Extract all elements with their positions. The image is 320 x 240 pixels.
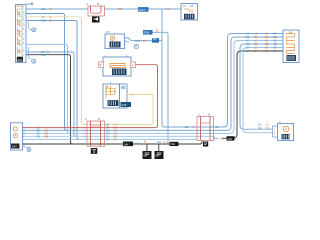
comp 225 connector tag (dark blue): [121, 102, 132, 107]
bottom component 1094 (switch): [85, 117, 105, 146]
svg-text:16A: 16A: [41, 50, 46, 54]
unit 1 connector footer: [17, 57, 23, 62]
black connector box on dark vertical: [227, 136, 235, 141]
svg-text:171: 171: [106, 30, 111, 34]
svg-text:B: B: [28, 148, 30, 152]
svg-text:LB: LB: [254, 35, 257, 39]
svg-text:LA: LA: [266, 123, 269, 127]
label 29A near unit 1 top: [27, 2, 33, 6]
component 171 windscreen washer pump: [105, 30, 125, 48]
svg-text:1C: 1C: [246, 39, 249, 43]
svg-text:M: M: [164, 140, 166, 144]
splice box R on pump wire: [152, 37, 159, 43]
svg-text:LA: LA: [167, 7, 170, 11]
svg-text:A: A: [132, 63, 134, 67]
wire: row B blue, turns down at x64.5 into bus row: [26, 14, 67, 131]
svg-text:LC: LC: [254, 39, 257, 43]
svg-text:1A: 1A: [246, 32, 249, 36]
svg-text:LF: LF: [114, 138, 117, 142]
wire: bus row blue y130.4, rises at x231 to fuse box: [23, 37, 284, 130]
wire: row G dark, turns down at x70.5: [26, 55, 73, 144]
svg-text:20A: 20A: [41, 7, 46, 11]
svg-text:1F: 1F: [246, 49, 249, 53]
circled harness mark 8: [134, 44, 138, 48]
svg-text:M: M: [221, 136, 223, 140]
svg-text:B: B: [100, 63, 102, 67]
svg-text:2D: 2D: [37, 135, 40, 139]
svg-text:NH: NH: [228, 137, 232, 141]
svg-text:MH: MH: [156, 155, 160, 158]
wire: dark vertical from fuse box row y51 down to NH terminal: [222, 51, 283, 138]
svg-text:2C: 2C: [265, 39, 268, 43]
horn pictogram (black box): [92, 17, 100, 23]
svg-text:2K: 2K: [106, 138, 109, 142]
unit 260 fuse box (top right edge): [283, 30, 299, 63]
svg-text:3B: 3B: [274, 35, 277, 39]
svg-text:B: B: [208, 113, 210, 117]
pin numbers at box 247 edge: [23, 127, 25, 146]
svg-text:2A: 2A: [265, 32, 268, 36]
svg-text:MH: MH: [144, 155, 148, 158]
svg-text:3F: 3F: [274, 49, 277, 53]
labels near right box: blue pin col: [274, 32, 277, 54]
svg-text:247: 247: [12, 145, 17, 149]
svg-text:LD: LD: [254, 42, 257, 46]
svg-text:MH: MH: [136, 142, 140, 146]
horn component 1034: [87, 2, 105, 16]
svg-text:A: A: [198, 113, 200, 117]
svg-text:LA: LA: [49, 7, 52, 11]
svg-text:1B: 1B: [246, 35, 249, 39]
ground symbol right: [155, 144, 164, 159]
wire: red net comp 244 pin A, down at x157.5, left along bus row y127.6 to unit 247: [23, 65, 158, 128]
wire: dark ground row y144: [23, 141, 203, 145]
svg-text:A: A: [49, 15, 51, 19]
svg-text:1A: 1A: [183, 4, 186, 8]
component 272 (bottom right switch): [197, 113, 214, 141]
svg-text:3C: 3C: [274, 39, 277, 43]
svg-text:2E: 2E: [265, 46, 268, 50]
wire: row A blue from horn to relay: [105, 8, 182, 10]
svg-text:LF: LF: [254, 49, 257, 53]
svg-text:NH: NH: [124, 142, 128, 146]
pictogram under 272: [203, 142, 208, 147]
svg-text:16A: 16A: [135, 39, 140, 43]
wire: pump to splice R: [125, 38, 163, 42]
svg-text:R107: R107: [139, 8, 146, 12]
wire: branch from row A down at x162, through comp 272 row, rises at x227.5 to fuse box: [162, 9, 283, 127]
svg-text:A: A: [85, 117, 87, 121]
svg-text:R1: R1: [153, 37, 157, 41]
labels near right box: orange col 2: [265, 32, 268, 54]
svg-text:B: B: [33, 59, 35, 63]
svg-text:LB: LB: [49, 19, 52, 23]
svg-text:2G: 2G: [258, 123, 261, 127]
splice connector R107 (blue box) on row A: [138, 7, 149, 12]
comp 244 left pin box: [99, 62, 104, 68]
svg-text:R36: R36: [144, 31, 150, 35]
wire: from R36 right, down at x168 to ground row: [153, 32, 169, 144]
svg-text:LB: LB: [266, 126, 269, 130]
svg-text:M: M: [156, 29, 158, 33]
svg-text:B: B: [98, 117, 100, 121]
unit 1 pin numbers (red): [23, 7, 25, 58]
svg-text:2B: 2B: [265, 35, 268, 39]
bottom-left component 247: [11, 123, 23, 150]
wire: row D blue, turns down at x77 into bus row: [26, 21, 80, 140]
svg-text:MH: MH: [157, 140, 161, 144]
bus labels right of 1094: orange column: [114, 123, 117, 142]
svg-text:A: A: [193, 125, 195, 129]
relay 236 (top right): [181, 4, 198, 21]
wire: fuse box row y44 down at x240 to comp 188 pin 1: [240, 44, 283, 129]
wire: row A blue from unit 1 to horn: [26, 8, 89, 10]
svg-text:1E: 1E: [246, 46, 249, 50]
svg-text:2F: 2F: [265, 49, 268, 53]
wire: row E blue, turns down at x67.5 into bus row: [26, 44, 70, 133]
svg-text:225: 225: [122, 103, 127, 107]
svg-text:MB: MB: [45, 135, 49, 139]
svg-text:B: B: [98, 2, 100, 6]
red pin digits left of comp 1094: [84, 128, 86, 139]
wire: bus row blue y133.4, rises at x234 to fuse box: [23, 41, 284, 134]
svg-text:M: M: [47, 50, 49, 54]
harness leader to circle B (top): [29, 22, 36, 32]
labels on right vertical-to-box rows: cyan col: [246, 32, 249, 54]
svg-text:LE: LE: [254, 46, 257, 50]
svg-text:2D: 2D: [265, 42, 268, 46]
ground symbol left: [143, 140, 152, 159]
splice connector box R36 (x143,y30): [143, 30, 153, 35]
svg-text:B: B: [33, 28, 35, 32]
labels on right rows: orange col: [254, 32, 257, 54]
harness leader + circle at 247: [23, 147, 31, 152]
bus labels right of 1094: cyan column: [106, 123, 109, 142]
svg-text:1B: 1B: [190, 4, 193, 8]
harness leader to circle B (bottom): [29, 47, 36, 63]
svg-text:2H: 2H: [258, 126, 261, 130]
comp 225 right section: [120, 84, 128, 108]
svg-text:NH: NH: [171, 142, 175, 146]
component 225 sensor (lower middle): [103, 80, 120, 108]
wire: fuse box row y47.5 down at x243 to comp 188 pin 2: [243, 48, 283, 133]
wire: yellow from comp 225 to bus: [105, 95, 154, 125]
wire: bus row light blue y136.4: [23, 135, 214, 137]
pictogram under 1094: [91, 148, 98, 154]
wire: row C yellow, turns down at x81.5: [26, 17, 105, 125]
svg-text:20B: 20B: [41, 19, 46, 23]
svg-text:2F: 2F: [216, 125, 219, 129]
wire: bus row blue y139.4: [23, 138, 198, 140]
component 188 (bottom right): [278, 121, 294, 141]
unit 1 (left control module): [16, 5, 27, 63]
svg-text:LA: LA: [254, 32, 257, 36]
svg-text:3E: 3E: [274, 46, 277, 50]
svg-text:1D: 1D: [246, 42, 249, 46]
wire: row F blue, turns down at x74: [26, 52, 77, 136]
svg-text:2E: 2E: [185, 125, 188, 129]
svg-text:M: M: [144, 140, 146, 144]
bus labels left cyan: [37, 126, 40, 139]
svg-text:29A: 29A: [27, 2, 32, 6]
bus labels left orange: [45, 126, 49, 139]
black connector box 2 on ground row: [170, 142, 179, 146]
svg-text:3D: 3D: [274, 42, 277, 46]
svg-text:20A: 20A: [118, 7, 123, 11]
black connector box NH on ground row: [123, 142, 133, 147]
svg-text:A: A: [131, 93, 133, 97]
connector pin box of comp 188: [273, 126, 278, 137]
svg-text:A: A: [87, 2, 89, 6]
comp 244 right pin box: [131, 62, 136, 68]
component 244 sensor (middle): [103, 54, 131, 77]
svg-text:3A: 3A: [274, 32, 277, 36]
svg-text:261: 261: [17, 58, 22, 62]
